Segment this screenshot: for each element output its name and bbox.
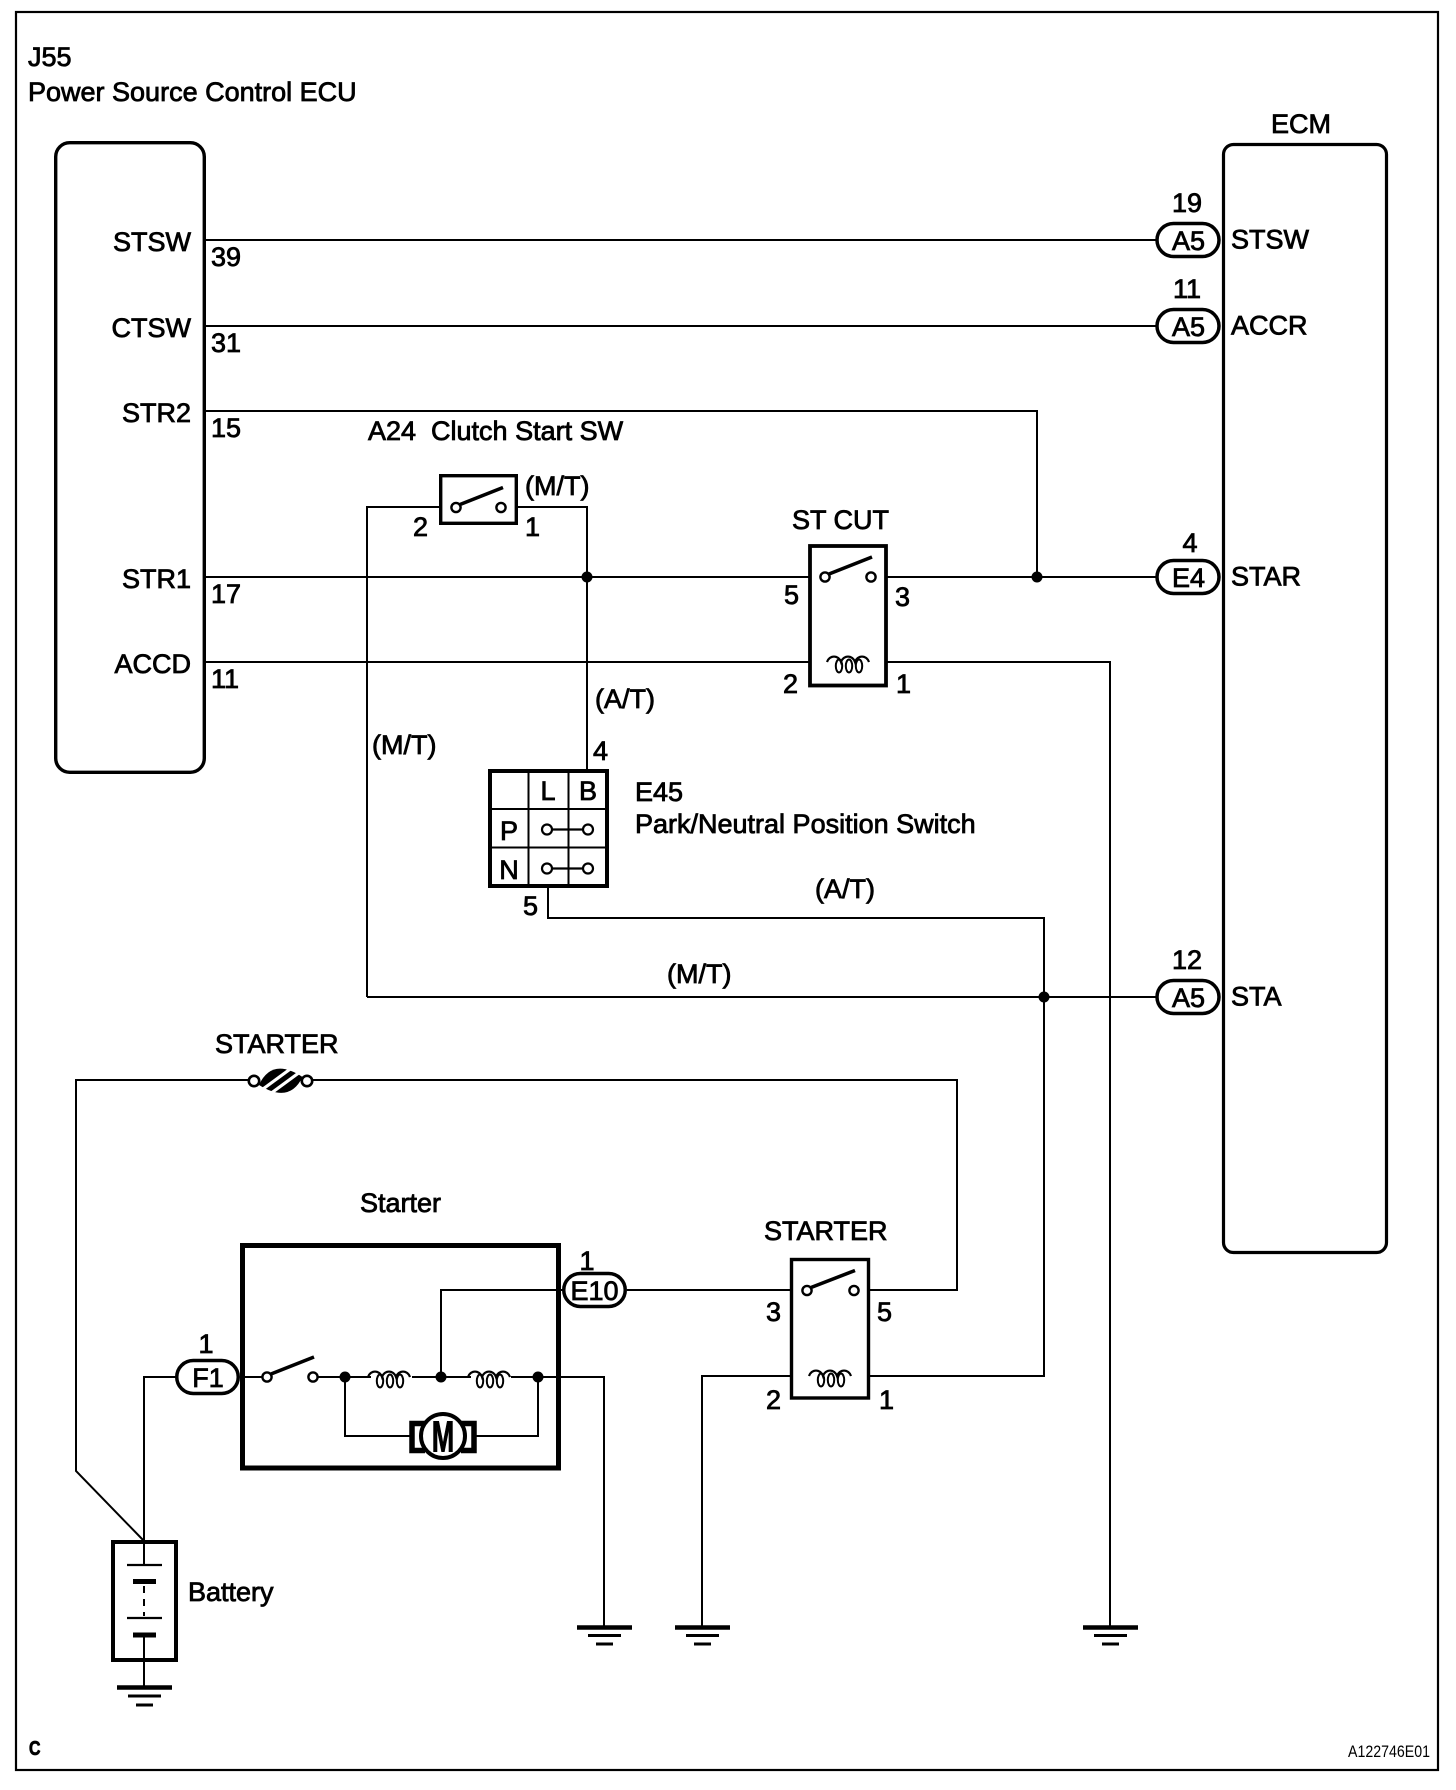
- wire F1 to battery plus: [144, 1377, 176, 1542]
- svg-text:2: 2: [413, 512, 428, 542]
- svg-text:4: 4: [1182, 528, 1197, 558]
- ground (starter relay): [675, 1628, 730, 1645]
- svg-text:CTSW: CTSW: [112, 313, 192, 343]
- svg-text:STR1: STR1: [122, 564, 191, 594]
- svg-text:A5: A5: [1172, 226, 1205, 256]
- svg-text:31: 31: [211, 328, 241, 358]
- svg-text:(A/T): (A/T): [595, 684, 655, 714]
- wire STA node down to STARTER relay coil pin 1: [869, 997, 1044, 1376]
- connector oval A5 (STSW): [1157, 224, 1219, 257]
- battery plate long 1: [127, 1564, 162, 1566]
- ST CUT blade: [829, 557, 872, 574]
- junction STR1/clutch: [582, 572, 593, 583]
- svg-text:M: M: [432, 1412, 454, 1461]
- connector oval F1: [177, 1361, 239, 1394]
- wire STARTER relay pin 3 to E10: [627, 1289, 791, 1291]
- connector oval A5 (STA): [1157, 981, 1219, 1014]
- wire starter internal contact feed: [240, 1376, 263, 1378]
- wire battery plus to fuse: [76, 1080, 249, 1541]
- wire clutch SW pin 2 to (M/T) run: [367, 507, 441, 997]
- svg-text:2: 2: [766, 1385, 781, 1415]
- ST CUT contact right: [866, 572, 875, 581]
- wire starter output to ground: [511, 1377, 604, 1627]
- svg-text:Starter: Starter: [360, 1188, 441, 1218]
- ground (starter): [577, 1628, 632, 1645]
- ground (battery): [117, 1688, 172, 1706]
- svg-text:(M/T): (M/T): [667, 959, 731, 989]
- battery dashed cells: [143, 1586, 145, 1616]
- svg-text:Battery: Battery: [188, 1577, 274, 1607]
- svg-text:39: 39: [211, 242, 241, 272]
- starter magnetic switch contact right: [308, 1372, 317, 1381]
- svg-text:15: 15: [211, 413, 241, 443]
- svg-text:Power Source Control ECU: Power Source Control ECU: [28, 77, 357, 107]
- switch E45 Park/Neutral Position Switch: [490, 771, 607, 886]
- ST CUT box: [810, 546, 886, 686]
- svg-text:STR2: STR2: [122, 398, 191, 428]
- svg-text:A122746E01: A122746E01: [1348, 1742, 1430, 1761]
- starter pull-in coil: [468, 1372, 510, 1377]
- fuse terminal right: [302, 1076, 312, 1086]
- svg-text:1: 1: [525, 512, 540, 542]
- svg-text:STAR: STAR: [1231, 562, 1301, 592]
- svg-text:(M/T): (M/T): [372, 730, 436, 760]
- ST CUT contact left: [820, 572, 829, 581]
- wire starter to E10 pin 1: [441, 1290, 563, 1377]
- svg-text:12: 12: [1172, 945, 1202, 975]
- wire starter field winding run: [317, 1376, 371, 1378]
- switch A24 Clutch Start SW: [441, 476, 517, 524]
- svg-text:1: 1: [896, 669, 911, 699]
- E45 P contact: [551, 828, 584, 830]
- wire clutch SW pin 1 down to E45 pin 4: [516, 507, 587, 771]
- wire battery minus to ground: [143, 1660, 145, 1687]
- svg-text:3: 3: [895, 582, 910, 612]
- svg-text:STARTER: STARTER: [764, 1216, 888, 1246]
- STARTER relay contact right: [849, 1286, 858, 1295]
- svg-text:E4: E4: [1172, 563, 1205, 593]
- svg-text:STSW: STSW: [113, 227, 192, 257]
- svg-text:1: 1: [579, 1246, 594, 1276]
- svg-text:11: 11: [1173, 274, 1201, 304]
- A24 blade: [460, 488, 503, 505]
- starter magnetic switch contact left: [262, 1372, 271, 1381]
- wire (M/T) run to ECM A5-12 STA: [367, 996, 1156, 998]
- relay ST CUT: [810, 546, 886, 686]
- starter hold-in coil: [368, 1372, 410, 1377]
- svg-text:5: 5: [877, 1297, 892, 1327]
- wire ST CUT coil pin 1 to ground: [869, 662, 1110, 1627]
- ECU J55 connector box: [56, 143, 205, 773]
- battery plate short 1: [133, 1579, 156, 1584]
- battery plate short 2: [133, 1633, 156, 1638]
- connector oval E4 (STAR): [1157, 561, 1219, 594]
- STARTER relay coil: [809, 1371, 851, 1376]
- svg-text:ST CUT: ST CUT: [792, 505, 889, 535]
- svg-text:2: 2: [783, 669, 798, 699]
- STARTER relay contact left: [802, 1286, 811, 1295]
- svg-text:A24 Clutch Start SW: A24 Clutch Start SW: [368, 416, 624, 446]
- connector oval A5 (ACCR): [1157, 310, 1219, 343]
- svg-text:ECM: ECM: [1271, 109, 1331, 139]
- STARTER relay blade: [811, 1271, 855, 1288]
- svg-text:STSW: STSW: [1231, 225, 1310, 255]
- ECM connector box: [1224, 145, 1387, 1253]
- svg-text:Park/Neutral Position Switch: Park/Neutral Position Switch: [635, 809, 976, 839]
- wire STR1 J55-17 to ST CUT pin 5: [204, 576, 822, 578]
- svg-text:1: 1: [879, 1385, 894, 1415]
- wire starter motor right branch: [476, 1377, 538, 1436]
- A24 contact right: [496, 503, 505, 512]
- relay STARTER: [792, 1260, 869, 1399]
- svg-text:ACCD: ACCD: [114, 649, 191, 679]
- svg-text:19: 19: [1172, 188, 1202, 218]
- starter motor M: [412, 1412, 474, 1461]
- wire STARTER relay coil pin 2 to ground: [702, 1376, 791, 1627]
- starter assembly box: [243, 1246, 559, 1469]
- wire fuse to STARTER relay pin 5: [312, 1080, 957, 1290]
- STARTER relay box: [792, 1260, 869, 1399]
- svg-text:17: 17: [211, 579, 241, 609]
- wire CTSW J55-31 to ECM A5-11 ACCR: [204, 325, 1157, 327]
- junction starter contact/motor: [340, 1372, 351, 1383]
- battery internal lead top: [143, 1542, 145, 1565]
- battery: [113, 1542, 176, 1660]
- svg-text:(A/T): (A/T): [815, 874, 875, 904]
- svg-text:E45: E45: [635, 777, 683, 807]
- battery plate long 2: [127, 1617, 162, 1619]
- E45 grid: [528, 771, 530, 886]
- A24 box: [441, 476, 517, 524]
- svg-text:5: 5: [784, 580, 799, 610]
- wire ACCD J55-11 to ST CUT coil pin 2: [204, 661, 827, 663]
- svg-text:5: 5: [523, 891, 538, 921]
- wire starter motor left branch: [345, 1377, 410, 1436]
- svg-text:L: L: [540, 776, 555, 806]
- svg-text:A5: A5: [1172, 983, 1205, 1013]
- junction starter output/motor: [533, 1372, 544, 1383]
- battery box: [113, 1542, 176, 1660]
- wire ST CUT pin 3 to ECM E4-4 STAR: [875, 576, 1156, 578]
- svg-text:A5: A5: [1172, 312, 1205, 342]
- svg-text:1: 1: [198, 1329, 213, 1359]
- E45 N contact: [551, 867, 584, 869]
- wire STSW J55-39 to ECM A5-19: [204, 239, 1157, 241]
- svg-text:(M/T): (M/T): [525, 471, 589, 501]
- svg-text:3: 3: [766, 1297, 781, 1327]
- svg-text:4: 4: [593, 736, 608, 766]
- svg-text:J55: J55: [28, 42, 72, 72]
- svg-text:ACCR: ACCR: [1231, 311, 1308, 341]
- wire E45 pin 5 (A/T) run: [548, 886, 1044, 997]
- svg-text:11: 11: [211, 664, 239, 694]
- ground (ST CUT coil): [1083, 1628, 1138, 1645]
- svg-text:STA: STA: [1231, 982, 1282, 1012]
- junction STR2/STAR: [1032, 572, 1043, 583]
- svg-text:F1: F1: [192, 1363, 224, 1393]
- A24 contact left: [451, 503, 460, 512]
- connector oval E10: [564, 1274, 626, 1307]
- svg-text:B: B: [579, 776, 597, 806]
- svg-text:E10: E10: [570, 1276, 618, 1306]
- svg-text:STARTER: STARTER: [215, 1029, 339, 1059]
- junction STA node: [1039, 992, 1050, 1003]
- ST CUT coil: [827, 657, 869, 662]
- junction starter windings/E10: [436, 1372, 447, 1383]
- wire STR2 J55-15 to STAR node: [204, 411, 1037, 577]
- fusible link body: [259, 1069, 303, 1093]
- fuse terminal left: [249, 1076, 259, 1086]
- fuse STARTER (fusible link): [249, 1067, 312, 1094]
- svg-text:N: N: [499, 855, 519, 885]
- starter magnetic switch blade: [271, 1357, 314, 1374]
- E45 box: [490, 771, 607, 886]
- svg-text:P: P: [500, 816, 518, 846]
- battery internal lead bottom: [143, 1635, 145, 1660]
- svg-text:C: C: [29, 1738, 41, 1760]
